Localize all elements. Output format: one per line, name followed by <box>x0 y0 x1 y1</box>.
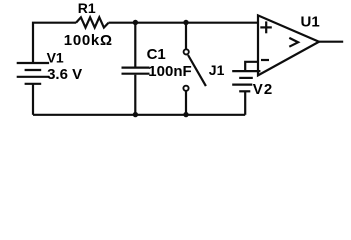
svg-text:C1: C1 <box>147 46 166 63</box>
op-amp U1 triangle <box>258 15 319 75</box>
wire top rail left segment <box>33 23 76 63</box>
switch J1 <box>183 23 206 115</box>
wire top rail right segment to op-amp <box>109 22 259 24</box>
wire op-amp minus input to V2 <box>245 62 258 71</box>
wire op-amp output <box>318 41 344 43</box>
op-amp minus input symbol <box>261 59 269 61</box>
svg-text:V1: V1 <box>47 50 64 66</box>
battery V1 <box>17 63 49 115</box>
node junction bottom J1 <box>183 112 188 117</box>
svg-text:100kΩ: 100kΩ <box>64 32 113 49</box>
svg-text:U1: U1 <box>301 13 320 30</box>
svg-text:V2: V2 <box>253 81 274 98</box>
node junction bottom C1 <box>133 112 138 117</box>
wire bottom rail <box>33 114 245 116</box>
svg-text:3.6 V: 3.6 V <box>47 66 82 83</box>
resistor R1 <box>76 17 109 27</box>
node junction top J1 <box>183 20 188 25</box>
svg-text:R1: R1 <box>78 0 96 16</box>
svg-text:100nF: 100nF <box>148 63 191 80</box>
node junction top C1 <box>133 20 138 25</box>
capacitor C1 <box>122 23 150 115</box>
svg-text:J1: J1 <box>209 62 225 78</box>
battery V2 <box>232 71 260 115</box>
op-amp comparator greater-than symbol <box>289 38 298 47</box>
op-amp plus input symbol <box>260 21 272 33</box>
